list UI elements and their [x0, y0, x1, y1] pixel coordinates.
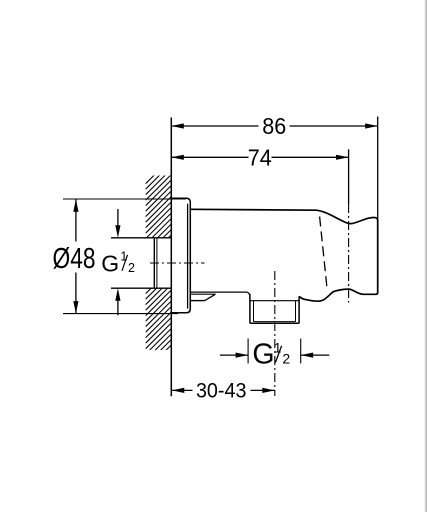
svg-text:30-43: 30-43 — [196, 379, 247, 402]
svg-text:2: 2 — [128, 261, 135, 275]
svg-text:G: G — [252, 339, 274, 371]
svg-text:Ø48: Ø48 — [53, 243, 96, 275]
svg-text:G: G — [101, 251, 119, 277]
svg-text:86: 86 — [262, 113, 286, 139]
svg-text:2: 2 — [282, 351, 290, 367]
svg-text:74: 74 — [248, 144, 272, 170]
